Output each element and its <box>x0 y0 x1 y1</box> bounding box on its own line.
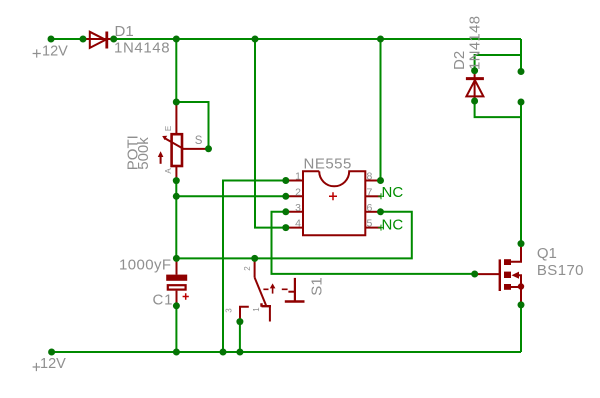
svg-text:1: 1 <box>252 307 261 312</box>
label Q1 <box>537 245 557 262</box>
diode D1 <box>84 32 114 49</box>
wire C1 bottom to rail <box>175 306 177 352</box>
wire right column upper (rail to JP gap) <box>520 39 522 72</box>
label pin 6 <box>367 202 373 214</box>
node C1 bottom <box>173 302 180 309</box>
node JP lower pin <box>518 99 525 106</box>
label NE555 <box>304 156 352 173</box>
IC pin 3 <box>286 211 303 213</box>
svg-text:4: 4 <box>295 218 301 230</box>
svg-text:D1: D1 <box>115 23 134 40</box>
svg-text:NC: NC <box>382 184 404 201</box>
node POTI top E <box>173 99 180 106</box>
node C1 top <box>173 255 180 262</box>
svg-text:Q1: Q1 <box>537 245 557 262</box>
wire bottom +12V rail <box>52 351 521 353</box>
supply +12V top <box>33 44 69 60</box>
label NC pin5 <box>378 217 403 234</box>
IC pin 5 <box>365 227 381 229</box>
svg-text:A: A <box>164 168 173 174</box>
svg-text:7: 7 <box>367 186 373 198</box>
label BS170 (Q1 value) <box>537 262 584 279</box>
node rail/pin4 column <box>252 36 259 43</box>
node Q1 gate <box>471 271 478 278</box>
svg-text:1N4148: 1N4148 <box>466 16 483 70</box>
node D1 cathode <box>110 36 117 43</box>
node bottom rail +12V pin <box>48 349 55 356</box>
wire POTI S loop <box>176 102 208 149</box>
IC pin 7 <box>365 195 381 197</box>
node pin8 <box>377 177 384 184</box>
wire top +12V rail <box>51 38 521 40</box>
label pin 1 (S1) <box>252 307 261 312</box>
svg-text:8: 8 <box>367 171 373 183</box>
svg-text:12V: 12V <box>42 44 68 60</box>
svg-text:C1: C1 <box>153 292 174 309</box>
IC pin 1 <box>286 180 303 182</box>
node S1 pin2 junction <box>251 255 258 262</box>
label pin S (POTI) <box>195 135 203 147</box>
svg-text:1N4148: 1N4148 <box>114 40 170 57</box>
wire D2 bypass top <box>475 55 521 71</box>
label pin 3 <box>295 202 301 214</box>
wire rail to pin4 <box>255 39 286 228</box>
svg-text:500k: 500k <box>135 137 152 170</box>
svg-text:D2: D2 <box>451 51 468 70</box>
node Q1 drain <box>518 240 525 247</box>
svg-text:NE555: NE555 <box>304 156 352 173</box>
node Q1 source <box>518 301 525 308</box>
svg-text:S: S <box>195 135 203 147</box>
label D2 <box>451 51 468 70</box>
label S1 <box>309 277 326 295</box>
node bottom rail / pin1 ground column <box>220 349 227 356</box>
svg-text:6: 6 <box>367 202 373 214</box>
label pin 8 <box>367 171 373 183</box>
label D1 <box>115 23 134 40</box>
node JP upper pin <box>518 68 525 75</box>
label pin 5 <box>367 218 373 230</box>
label C1 <box>153 292 174 309</box>
svg-text:S1: S1 <box>309 277 326 295</box>
label 1N4148 (D1 value) <box>114 40 170 57</box>
capacitor C1 <box>166 258 189 305</box>
wire D2 bypass bottom <box>475 101 521 117</box>
label pin A (POTI) <box>164 168 173 174</box>
svg-text:12V: 12V <box>40 356 66 372</box>
svg-text:1000yF: 1000yF <box>119 257 171 274</box>
wire right column to Q1 drain <box>520 102 522 244</box>
node POTI wiper S <box>205 145 212 152</box>
label 500k <box>135 137 152 170</box>
svg-text:2: 2 <box>295 186 301 198</box>
node pin3 <box>282 208 289 215</box>
label pin 1 <box>295 171 301 183</box>
node POTI/pin2 junction <box>173 193 180 200</box>
node top rail +12V pin <box>48 36 55 43</box>
svg-text:BS170: BS170 <box>537 262 584 279</box>
svg-text:3: 3 <box>295 202 301 214</box>
node pin2 <box>282 193 289 200</box>
label pin 2 <box>295 186 301 198</box>
potentiometer POTI 500k <box>158 102 209 181</box>
wire pin2 to POTI bottom <box>176 195 285 197</box>
IC pin 4 <box>286 227 303 229</box>
node POTI bottom A <box>173 177 180 184</box>
wire POTI bottom to C1 <box>175 181 177 259</box>
IC pin 8 <box>365 180 381 182</box>
node D2 anode <box>471 98 478 105</box>
node rail/pin8 column <box>377 36 384 43</box>
label pin 3 (S1) <box>225 308 234 313</box>
wire rail to POTI top <box>175 39 177 102</box>
IC pin 6 <box>365 211 381 213</box>
node bottom rail / C1 column <box>173 349 180 356</box>
transistor Q1 BS170 <box>476 244 524 305</box>
node S1 pin3 <box>236 318 243 325</box>
IC pin 2 <box>286 195 303 197</box>
node pin1 <box>282 177 289 184</box>
label 1000yF (C1 value) <box>119 257 171 274</box>
wire pin6 to C1 top <box>176 212 411 259</box>
wire S1 pin3 to rail <box>239 322 241 352</box>
switch S1 <box>240 259 305 322</box>
wire rail to pin8 <box>380 39 382 181</box>
wire pin1 to ground rail <box>223 181 286 353</box>
svg-text:1: 1 <box>295 171 301 183</box>
diode D2 <box>466 71 484 101</box>
wire pin3 to Q1 gate <box>272 212 475 274</box>
label pin 4 <box>295 218 301 230</box>
node bottom rail / S1 pin3 column <box>236 349 243 356</box>
svg-text:E: E <box>164 126 173 131</box>
node rail/POTI column <box>173 36 180 43</box>
wire Q1 source to bottom rail <box>520 305 522 352</box>
svg-text:2: 2 <box>243 266 252 271</box>
label pin 7 <box>367 186 373 198</box>
svg-text:5: 5 <box>367 218 373 230</box>
label pin 2 (S1) <box>243 266 252 271</box>
IC U1 NE555 body <box>303 171 365 235</box>
label pin E (POTI) <box>164 126 173 131</box>
svg-text:NC: NC <box>382 217 404 234</box>
supply +12V bottom <box>33 356 67 372</box>
label 1N4148 (D2 value) <box>466 16 483 70</box>
label NC pin7 <box>378 184 403 201</box>
node pin6 <box>377 208 384 215</box>
node pin4 <box>282 224 289 231</box>
label POTI <box>125 135 142 170</box>
node D1 anode <box>80 36 87 43</box>
svg-text:3: 3 <box>225 308 234 313</box>
node D2 cathode <box>471 67 478 74</box>
